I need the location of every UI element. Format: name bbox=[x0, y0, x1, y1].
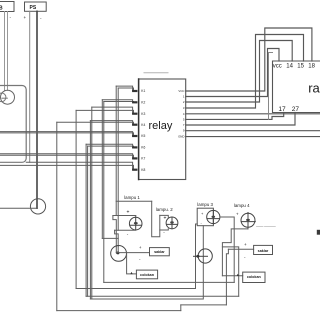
svg-text:15: 15 bbox=[297, 64, 304, 70]
svg-text:relay: relay bbox=[149, 120, 173, 132]
svg-text:GND: GND bbox=[178, 135, 184, 139]
svg-text:K1: K1 bbox=[141, 89, 145, 93]
svg-text:+: + bbox=[24, 15, 27, 20]
svg-text:+: + bbox=[244, 242, 247, 247]
svg-text:K8: K8 bbox=[141, 168, 145, 172]
svg-text:+: + bbox=[127, 210, 130, 216]
svg-text:lampu 1: lampu 1 bbox=[124, 195, 140, 200]
svg-text:B: B bbox=[0, 5, 3, 11]
svg-text:K2: K2 bbox=[141, 101, 145, 105]
svg-text:14: 14 bbox=[286, 64, 293, 70]
svg-text:saklar: saklar bbox=[154, 250, 165, 254]
svg-text:ras: ras bbox=[308, 80, 320, 95]
svg-text:vcc: vcc bbox=[273, 64, 282, 70]
svg-text:+: + bbox=[164, 216, 167, 222]
svg-text:27: 27 bbox=[292, 106, 300, 113]
svg-text:lampu 3: lampu 3 bbox=[197, 202, 213, 207]
svg-text:lampu. 2: lampu. 2 bbox=[156, 207, 173, 212]
svg-text:colokan: colokan bbox=[247, 275, 262, 279]
svg-text:K6: K6 bbox=[141, 146, 145, 150]
svg-text:colokan: colokan bbox=[140, 273, 155, 277]
svg-text:17: 17 bbox=[278, 106, 286, 113]
svg-text:PS: PS bbox=[30, 5, 37, 11]
svg-text:+: + bbox=[236, 211, 239, 216]
svg-text:lampu 4: lampu 4 bbox=[234, 203, 250, 208]
svg-text:saklar: saklar bbox=[258, 249, 269, 253]
svg-text:K5: K5 bbox=[141, 134, 145, 138]
svg-text:K7: K7 bbox=[141, 157, 145, 161]
svg-text:VCC: VCC bbox=[178, 89, 184, 93]
svg-text:K3: K3 bbox=[141, 112, 145, 116]
svg-text:K4: K4 bbox=[141, 123, 145, 127]
svg-text:18: 18 bbox=[308, 64, 315, 70]
